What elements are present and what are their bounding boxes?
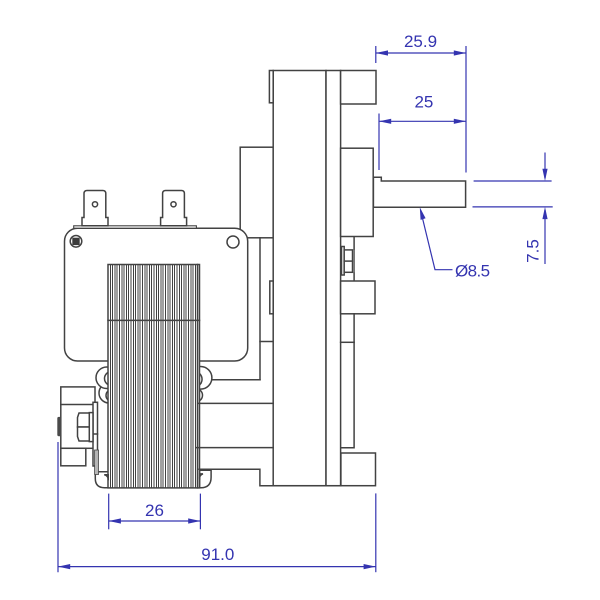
rear bump box B [61,448,86,466]
bottom-right block [341,453,376,486]
arrowheads 25.9 [376,50,388,55]
fold notch right [200,474,203,480]
gearbox back plate [326,71,341,486]
stack inner edge line right [197,265,199,488]
arrowheads 7.5 [542,169,547,181]
tab top-left of plate [269,71,273,103]
lower tab left [95,472,108,488]
motor can (rear housing between cover and gear plate) [240,147,273,238]
dim 25 extension line [378,114,380,171]
stack hatching [110,265,197,487]
screw right [227,236,239,248]
dim 91.0 extension lines [57,442,59,572]
wire: gear case parting line left [260,341,273,343]
svg-text:25.9: 25.9 [404,32,437,51]
gearbox front plate [273,71,326,486]
svg-text:91.0: 91.0 [201,545,234,564]
svg-text:25: 25 [414,93,433,112]
dim 25.9 extension lines [375,46,377,63]
dim 25 line [379,120,466,122]
dim 26 line [109,520,201,522]
rivet head left lower [106,390,118,402]
screw head [344,250,352,272]
hex nut upper [78,413,92,427]
rivet boss left upper [96,367,118,389]
arrowheads 25 [379,119,391,124]
screw left [70,236,82,248]
hex nut lower [78,427,92,441]
arrowheads 26 [109,518,121,523]
nut washer [89,413,93,442]
boss top-right [341,71,376,105]
arrowheads 91.0 [58,564,70,569]
terminal T2 [161,191,187,226]
rear bump box A [61,387,95,448]
strip right edge below boss [341,314,354,448]
terminal T1 [82,191,108,226]
boss mid-right [341,281,375,314]
bracket bridge line behind rivets [198,379,260,381]
dim 25.9 line [376,52,466,54]
rivet head left upper [105,372,119,386]
screw head mid line [344,260,352,262]
svg-text:26: 26 [145,501,164,520]
fold notch left [104,475,108,480]
rivet head right upper [187,372,203,388]
dim 7.5 arrow stems [544,153,546,179]
bracket foot step [199,469,341,485]
terminal base bar [74,226,197,228]
terminal T2 hole [171,202,176,207]
lower tab right [200,470,212,487]
rivet boss left lower [99,383,119,403]
stator lamination stack [108,265,200,488]
edge behind hub to boss [353,237,355,281]
screw plate [342,247,345,276]
rivet boss right lower [190,389,203,402]
dimension texts [145,32,542,564]
strip inner line [341,341,355,343]
svg-text:Ø8.5: Ø8.5 [455,262,490,281]
stack mid line [108,319,200,321]
bearing cap dark [57,417,61,436]
bearing hub [341,148,374,236]
bracket lower bridge lines [198,402,273,404]
rear bump box A mid line [61,404,93,406]
tab mid-left of plate [270,281,273,314]
output shaft [373,177,465,207]
screw head shadow [353,250,355,272]
rivet boss right upper [189,367,212,390]
wire: gear case side edge [259,238,261,380]
leader Ø8.5 [421,210,453,270]
arrowhead leader [420,207,426,220]
strip between bump and stator [93,402,98,466]
dim 91.0 line [58,566,376,568]
motor cover (rounded) [65,228,248,361]
dim 26 extension lines [108,494,110,530]
terminal T1 hole [92,202,97,207]
strip gray shading [95,450,99,475]
svg-text:7.5: 7.5 [524,239,543,263]
dim 7.5 object lines [474,180,552,182]
